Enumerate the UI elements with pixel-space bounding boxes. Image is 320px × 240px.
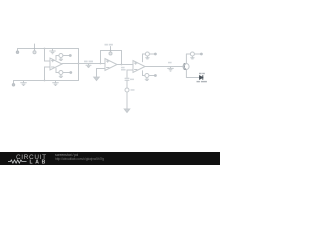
ground G3 (53, 81, 59, 86)
junction node A (44, 48, 46, 50)
ground G5 (triangle) (94, 77, 99, 80)
op-amp OA2 (105, 59, 117, 71)
wire to OA1 non-inverting input (45, 67, 51, 81)
OA1 V+ supply VS1 (56, 54, 71, 61)
wire M3 (OA3 output to Q1 base) (145, 66, 183, 68)
ground G6 (triangle) (124, 109, 129, 112)
label D1 value (197, 81, 207, 82)
wire M1 (OA1 output to OA2) (62, 63, 105, 65)
op-amp OA3 (133, 61, 145, 73)
OA1 V- supply VS2 (56, 68, 72, 77)
OA2 non-inverting input wire (97, 69, 106, 77)
logo resistor zigzag (8, 160, 27, 163)
label C1 (130, 79, 134, 81)
wire A (top net) (18, 48, 79, 50)
attribution bar (0, 152, 220, 165)
label P2 (105, 44, 113, 46)
label R1 (84, 61, 93, 63)
wire M2 (OA2 output to OA3) (117, 64, 133, 66)
capacitor C1 (125, 78, 129, 88)
feedback loop wire OA2 (101, 51, 122, 65)
ground G4 (86, 64, 91, 68)
op-amp OA1 (50, 58, 62, 70)
label V2 (131, 89, 135, 91)
emitter wire (186, 77, 199, 79)
ground G2 (21, 81, 27, 86)
terminal T2 (12, 81, 14, 87)
source V2 (125, 88, 129, 109)
wire B (bottom net) (14, 80, 79, 82)
wire to OA1 inverting input (45, 49, 51, 62)
terminal T1 (16, 49, 18, 54)
label net (168, 62, 172, 64)
label D1 (199, 73, 205, 74)
svg-text:http://circuitlab.com/c/gkwjvw: http://circuitlab.com/c/gkwjvw5h7fg (55, 157, 104, 161)
OA3 non-inverting input wire (127, 70, 133, 77)
probe SW1 (33, 44, 36, 54)
Q1 collector supply VS5 (186, 52, 202, 59)
junction node B (44, 80, 46, 82)
probe P2 (109, 47, 112, 56)
OA3 V- supply VS4 (143, 71, 157, 81)
diode D1 (LED) (200, 76, 203, 80)
junction node D (100, 63, 102, 65)
OA3 V+ supply VS3 (143, 52, 157, 62)
ground G7 (168, 67, 174, 72)
svg-text:LAB: LAB (30, 159, 47, 165)
transistor Q1 (183, 54, 189, 78)
junction node C (78, 63, 80, 65)
feedback wire (right edge x=78) (78, 49, 80, 81)
label R2 (121, 67, 126, 71)
ground G1 (50, 49, 56, 54)
junction node E (121, 64, 123, 66)
